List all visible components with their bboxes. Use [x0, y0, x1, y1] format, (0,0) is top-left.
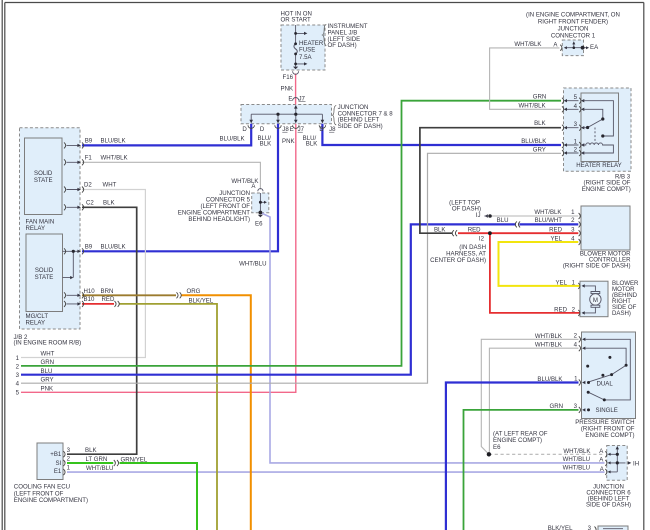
svg-text:RED: RED	[468, 226, 481, 233]
svg-text:CENTER OF DASH): CENTER OF DASH)	[430, 257, 486, 264]
svg-text:GRY: GRY	[533, 147, 546, 154]
svg-text:DASH): DASH)	[612, 310, 631, 317]
svg-text:B9: B9	[85, 137, 93, 144]
svg-text:BLK: BLK	[434, 226, 446, 233]
svg-text:F16: F16	[283, 74, 294, 81]
svg-text:B9: B9	[85, 243, 93, 250]
svg-text:SIDE OF DASH): SIDE OF DASH)	[338, 123, 383, 130]
svg-text:SIDE OF DASH): SIDE OF DASH)	[586, 502, 631, 509]
svg-text:BRN: BRN	[101, 288, 114, 295]
svg-text:E: E	[290, 126, 294, 133]
svg-text:(RIGHT SIDE OF DASH): (RIGHT SIDE OF DASH)	[563, 262, 631, 269]
svg-text:ENGINE COMPT): ENGINE COMPT)	[493, 437, 542, 444]
svg-text:WHT/BLU: WHT/BLU	[563, 456, 590, 463]
svg-text:GRY: GRY	[41, 376, 54, 383]
svg-text:STATE: STATE	[35, 274, 54, 281]
svg-text:WHT/BLK: WHT/BLK	[535, 342, 562, 349]
svg-text:F1: F1	[85, 154, 93, 161]
svg-text:M: M	[593, 297, 598, 304]
svg-text:LT GRN: LT GRN	[86, 456, 108, 463]
svg-text:RED: RED	[102, 296, 115, 303]
svg-text:HEATER RELAY: HEATER RELAY	[576, 162, 622, 169]
svg-text:WHT/BLK: WHT/BLK	[519, 102, 546, 109]
svg-text:WHT/BLU: WHT/BLU	[239, 261, 266, 268]
svg-text:D: D	[242, 126, 247, 133]
svg-text:GRN: GRN	[533, 94, 547, 101]
svg-text:SI: SI	[56, 460, 62, 467]
svg-text:BEHIND HEADLIGHT): BEHIND HEADLIGHT)	[188, 216, 250, 223]
svg-text:PNK: PNK	[281, 86, 294, 93]
svg-text:BLK: BLK	[103, 200, 115, 207]
svg-text:C2: C2	[86, 200, 94, 207]
svg-text:+B1: +B1	[50, 451, 62, 458]
svg-text:E6: E6	[493, 444, 501, 451]
svg-text:ENGINE COMPARTMENT): ENGINE COMPARTMENT)	[14, 497, 88, 504]
svg-text:WHT/BLK: WHT/BLK	[535, 333, 562, 340]
svg-text:ORG: ORG	[187, 288, 201, 295]
svg-text:RED: RED	[549, 226, 562, 233]
svg-text:D: D	[319, 126, 324, 133]
svg-text:BLK: BLK	[85, 447, 97, 454]
svg-text:H10: H10	[84, 288, 96, 295]
svg-text:BLU: BLU	[41, 368, 53, 375]
svg-text:RIGHT FRONT FENDER): RIGHT FRONT FENDER)	[538, 19, 608, 26]
svg-text:IJ: IJ	[476, 212, 481, 219]
svg-text:SINGLE: SINGLE	[596, 407, 618, 414]
svg-text:WHT/BLK: WHT/BLK	[534, 209, 561, 216]
svg-text:WHT: WHT	[103, 181, 117, 188]
svg-text:JUNCTION: JUNCTION	[558, 26, 589, 33]
svg-text:BLK: BLK	[260, 140, 272, 147]
svg-text:WHT: WHT	[41, 351, 55, 358]
svg-text:WHT/BLK: WHT/BLK	[101, 154, 128, 161]
svg-text:BLU/BLK: BLU/BLK	[521, 138, 546, 145]
svg-text:WHT/BLU: WHT/BLU	[86, 465, 113, 472]
svg-text:WHT/BLU: WHT/BLU	[563, 465, 590, 472]
svg-text:SOLID: SOLID	[35, 267, 54, 274]
svg-text:RELAY: RELAY	[26, 225, 46, 232]
svg-text:BLU/BLK: BLU/BLK	[101, 137, 126, 144]
svg-text:IH: IH	[633, 461, 639, 468]
svg-text:WHT/BLK: WHT/BLK	[563, 448, 590, 455]
svg-text:BLU/BLK: BLU/BLK	[220, 135, 245, 142]
svg-text:GRN: GRN	[549, 403, 563, 410]
svg-text:YEL: YEL	[550, 235, 562, 242]
svg-text:SOLID: SOLID	[34, 170, 53, 177]
svg-text:ENGINE COMPT): ENGINE COMPT)	[585, 432, 634, 439]
svg-text:FUSE: FUSE	[299, 46, 315, 53]
svg-text:B10: B10	[84, 296, 95, 303]
svg-text:YEL: YEL	[555, 279, 567, 286]
svg-text:PNK: PNK	[282, 138, 295, 145]
svg-text:E1: E1	[54, 468, 62, 475]
svg-text:ENGINE COMPT): ENGINE COMPT)	[582, 186, 631, 193]
svg-text:EA: EA	[590, 44, 599, 51]
svg-text:7.5A: 7.5A	[299, 54, 312, 61]
svg-text:BLU: BLU	[497, 217, 509, 224]
svg-text:BLU/BLK: BLU/BLK	[101, 243, 126, 250]
svg-text:BLK: BLK	[534, 120, 546, 127]
svg-text:(IN ENGINE ROOM R/B): (IN ENGINE ROOM R/B)	[14, 340, 82, 347]
svg-text:E: E	[288, 96, 292, 103]
svg-text:WHT/BLK: WHT/BLK	[514, 41, 541, 48]
svg-text:RED: RED	[554, 306, 567, 313]
svg-text:D: D	[260, 126, 265, 133]
svg-text:E6: E6	[255, 221, 263, 228]
svg-text:OF DASH): OF DASH)	[328, 42, 357, 49]
svg-text:I2: I2	[479, 236, 485, 243]
svg-text:BLU/BLK: BLU/BLK	[537, 376, 562, 383]
svg-text:CONNECTOR 1: CONNECTOR 1	[551, 33, 596, 40]
svg-text:(IN ENGINE COMPARTMENT, ON: (IN ENGINE COMPARTMENT, ON	[526, 12, 620, 19]
svg-text:BLK/YEL: BLK/YEL	[548, 525, 573, 530]
svg-text:STATE: STATE	[34, 177, 53, 184]
svg-text:GRN: GRN	[41, 359, 55, 366]
svg-text:PNK: PNK	[41, 386, 54, 393]
svg-text:BLU/WHT: BLU/WHT	[535, 217, 563, 224]
svg-text:BLK: BLK	[306, 140, 318, 147]
svg-text:OR START: OR START	[281, 17, 312, 24]
svg-text:DUAL: DUAL	[597, 381, 614, 388]
svg-text:D2: D2	[84, 181, 92, 188]
svg-text:GRN/YEL: GRN/YEL	[121, 457, 148, 464]
svg-text:RELAY: RELAY	[26, 319, 46, 326]
svg-text:BLK/YEL: BLK/YEL	[189, 297, 214, 304]
